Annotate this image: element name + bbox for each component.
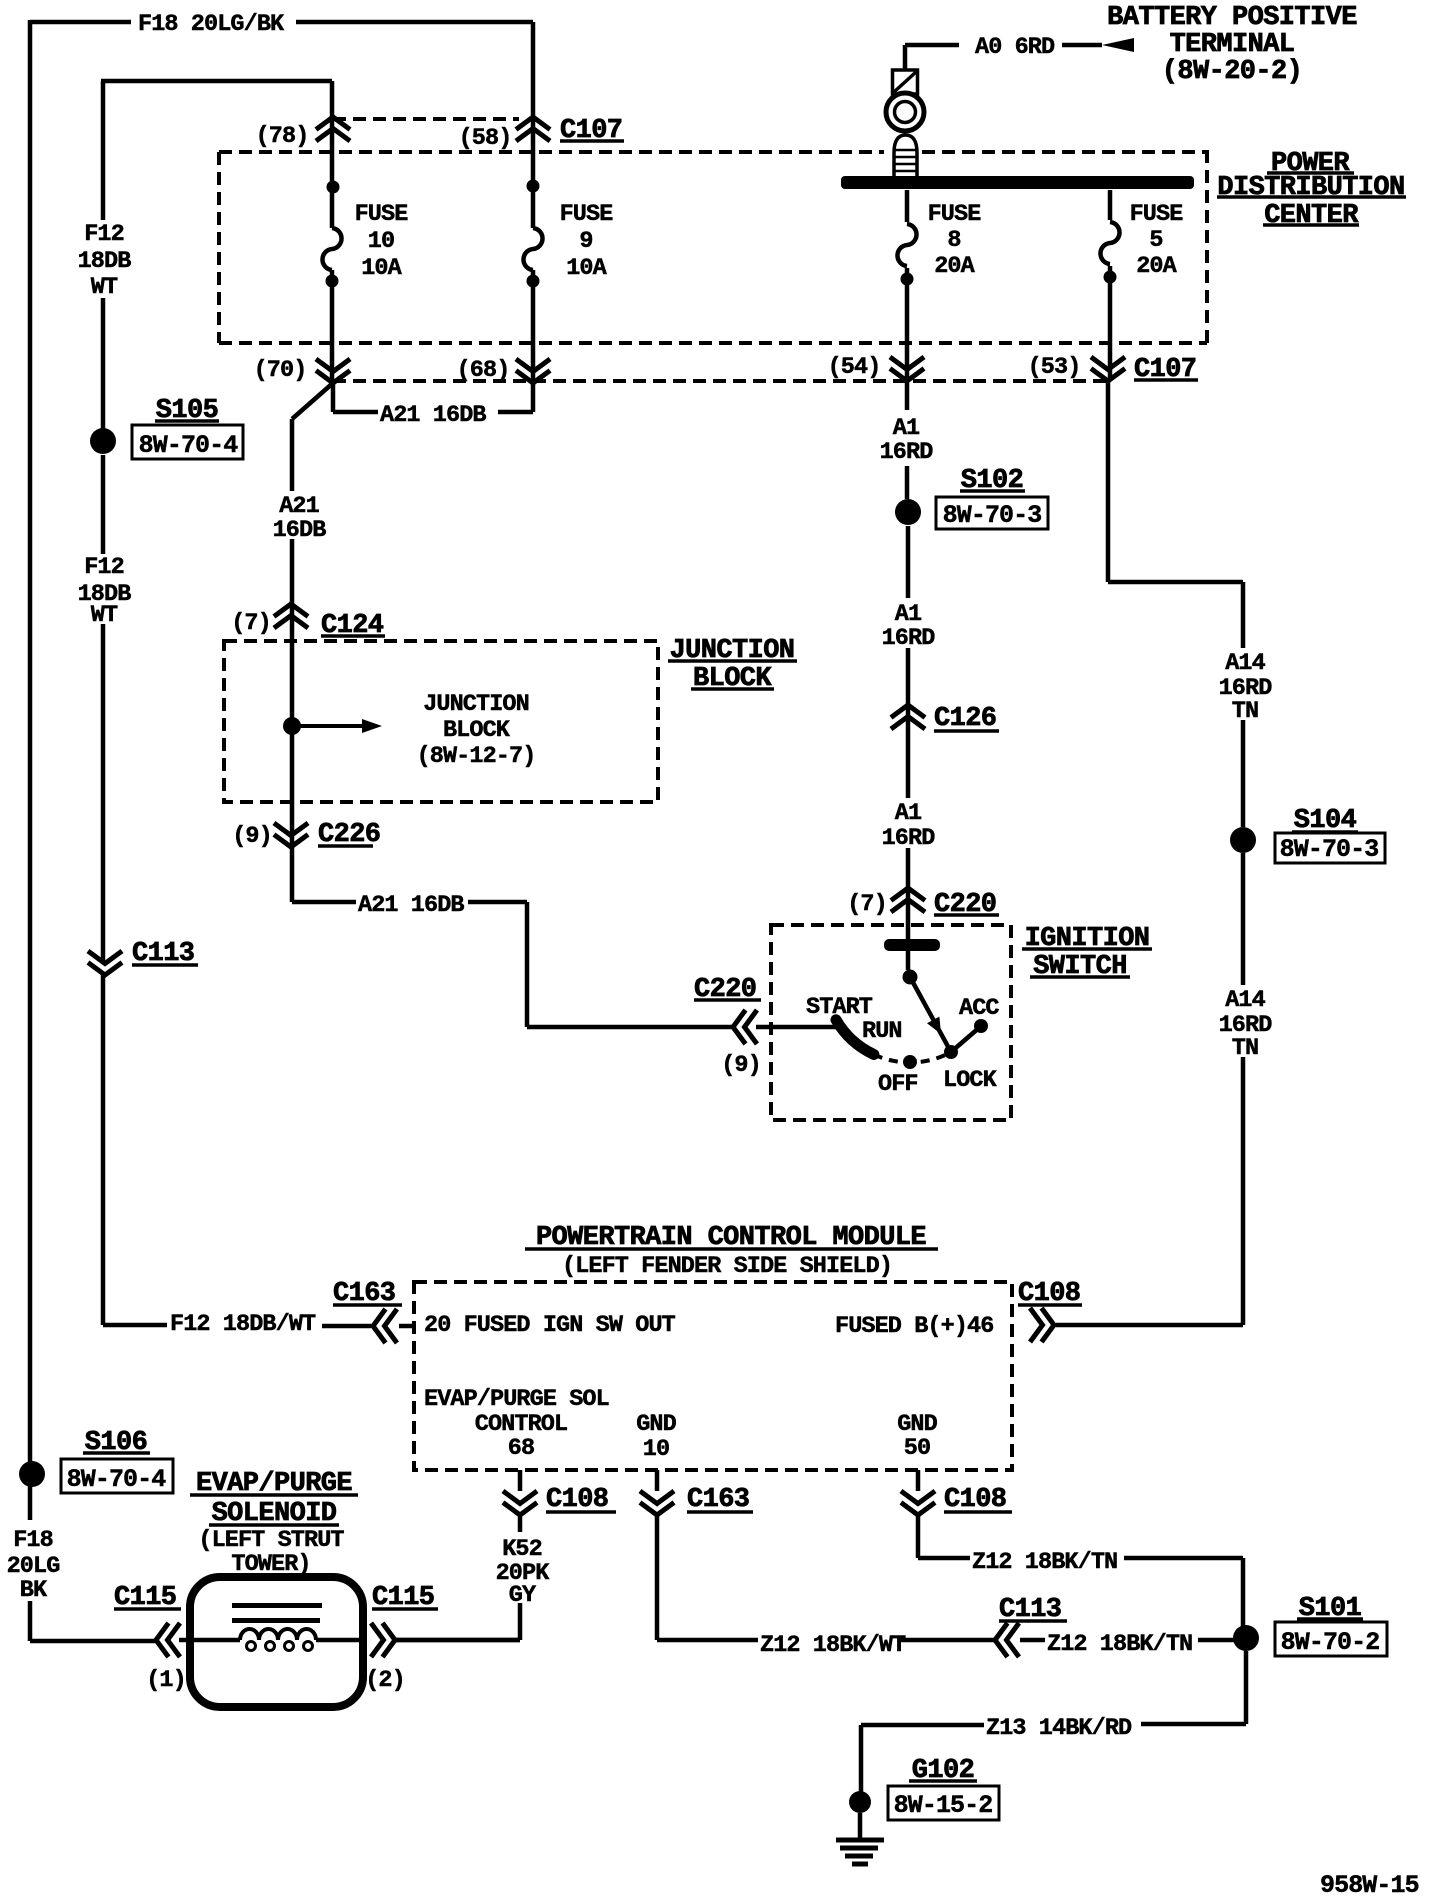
svg-text:(8W-20-2): (8W-20-2) [1162,57,1302,87]
svg-text:(9): (9) [232,823,272,850]
svg-text:8W-70-4: 8W-70-4 [139,431,239,460]
svg-text:Z12 18BK/TN: Z12 18BK/TN [972,1549,1117,1576]
svg-text:958W-15: 958W-15 [1320,1871,1419,1896]
svg-text:(54): (54) [828,354,881,381]
svg-text:16DB: 16DB [273,517,327,544]
svg-text:DISTRIBUTION: DISTRIBUTION [1217,173,1404,203]
svg-text:GND: GND [897,1411,937,1438]
svg-text:POWERTRAIN CONTROL MODULE: POWERTRAIN CONTROL MODULE [536,1223,926,1253]
svg-text:(9): (9) [721,1052,761,1079]
svg-text:20A: 20A [1136,253,1177,280]
svg-text:A21: A21 [279,493,319,520]
svg-text:C108: C108 [546,1485,608,1515]
svg-text:EVAP/PURGE SOL: EVAP/PURGE SOL [424,1386,609,1413]
svg-text:C107: C107 [1134,355,1196,385]
svg-text:16RD: 16RD [882,825,936,852]
svg-text:(70): (70) [254,357,307,384]
svg-text:S102: S102 [961,466,1023,496]
svg-text:GY: GY [509,1582,537,1609]
svg-text:68: 68 [508,1435,534,1462]
svg-text:LOCK: LOCK [943,1067,998,1094]
svg-text:Z12 18BK/WT: Z12 18BK/WT [760,1632,906,1659]
svg-text:(LEFT FENDER SIDE SHIELD): (LEFT FENDER SIDE SHIELD) [562,1253,892,1280]
svg-text:WT: WT [91,274,118,301]
svg-text:START: START [806,994,873,1021]
svg-text:C163: C163 [687,1485,749,1515]
svg-text:TOWER): TOWER) [231,1551,310,1578]
svg-text:A1: A1 [895,800,922,827]
svg-text:20 FUSED IGN SW OUT: 20 FUSED IGN SW OUT [424,1312,676,1339]
svg-text:C113: C113 [999,1595,1061,1625]
svg-text:FUSE: FUSE [560,201,614,228]
svg-text:C126: C126 [934,704,996,734]
svg-text:TERMINAL: TERMINAL [1170,30,1295,60]
svg-text:10: 10 [643,1436,669,1463]
svg-text:F12: F12 [84,554,124,581]
svg-text:16RD: 16RD [882,625,936,652]
svg-text:FUSE: FUSE [1130,201,1184,228]
svg-text:(LEFT STRUT: (LEFT STRUT [198,1527,344,1554]
svg-text:K52: K52 [502,1536,542,1563]
svg-text:8W-70-3: 8W-70-3 [943,501,1042,530]
svg-text:(8W-12-7): (8W-12-7) [417,743,536,770]
svg-text:JUNCTION: JUNCTION [423,691,529,718]
svg-text:(68): (68) [457,357,510,384]
svg-text:20LG: 20LG [7,1553,60,1580]
svg-text:C124: C124 [321,611,384,641]
svg-text:F18: F18 [13,1527,53,1554]
svg-text:C115: C115 [372,1583,434,1613]
svg-text:CENTER: CENTER [1264,201,1359,231]
svg-text:TN: TN [1232,1035,1258,1062]
svg-text:F18 20LG/BK: F18 20LG/BK [138,11,285,38]
svg-text:GND: GND [636,1411,676,1438]
svg-text:CONTROL: CONTROL [475,1411,567,1438]
svg-text:9: 9 [579,228,592,255]
svg-text:C115: C115 [114,1583,176,1613]
svg-text:A14: A14 [1225,650,1265,677]
svg-text:C107: C107 [560,116,622,146]
svg-text:5: 5 [1149,227,1162,254]
svg-text:(7): (7) [847,891,887,918]
svg-text:SOLENOID: SOLENOID [212,1499,337,1529]
svg-text:F12 18DB/WT: F12 18DB/WT [170,1311,316,1338]
svg-text:C108: C108 [944,1485,1006,1515]
svg-text:FUSED B(+)46: FUSED B(+)46 [835,1313,993,1340]
svg-text:10A: 10A [566,255,607,282]
svg-text:(58): (58) [459,125,512,152]
svg-text:S105: S105 [156,396,218,426]
svg-text:20A: 20A [934,253,975,280]
svg-text:8: 8 [947,227,960,254]
svg-text:FUSE: FUSE [355,201,409,228]
svg-text:10: 10 [368,228,394,255]
svg-text:F12: F12 [84,221,124,248]
svg-text:C108: C108 [1018,1279,1080,1309]
svg-text:8W-70-3: 8W-70-3 [1280,835,1379,864]
svg-text:BATTERY POSITIVE: BATTERY POSITIVE [1107,3,1357,33]
svg-text:16RD: 16RD [880,439,934,466]
svg-text:C226: C226 [318,820,380,850]
svg-text:JUNCTION: JUNCTION [670,636,795,666]
svg-text:(2): (2) [365,1667,405,1694]
svg-text:S106: S106 [85,1428,147,1458]
svg-text:S101: S101 [1299,1594,1362,1624]
svg-text:WT: WT [91,602,118,629]
svg-text:EVAP/PURGE: EVAP/PURGE [196,1469,352,1499]
svg-text:BLOCK: BLOCK [443,717,511,744]
svg-text:(1): (1) [146,1667,186,1694]
svg-text:A0 6RD: A0 6RD [975,34,1055,61]
svg-text:A1: A1 [895,601,922,628]
svg-text:BLOCK: BLOCK [693,664,772,694]
svg-text:(53): (53) [1028,354,1081,381]
svg-text:(7): (7) [231,610,271,637]
svg-text:C220: C220 [934,890,996,920]
svg-text:18DB: 18DB [78,248,132,275]
svg-text:50: 50 [904,1435,930,1462]
svg-text:8W-15-2: 8W-15-2 [894,1791,993,1820]
svg-text:S104: S104 [1294,806,1357,836]
svg-text:SWITCH: SWITCH [1033,952,1127,982]
svg-text:ACC: ACC [959,995,999,1022]
svg-text:IGNITION: IGNITION [1025,924,1150,954]
svg-text:BK: BK [20,1577,48,1604]
svg-text:A21 16DB: A21 16DB [380,402,486,429]
svg-text:A14: A14 [1225,987,1265,1014]
svg-text:8W-70-2: 8W-70-2 [1281,1628,1380,1657]
svg-text:OFF: OFF [878,1071,918,1098]
svg-text:C113: C113 [132,939,194,969]
svg-text:(78): (78) [256,123,309,150]
svg-text:A21 16DB: A21 16DB [358,892,464,919]
svg-text:C220: C220 [694,975,756,1005]
svg-text:G102: G102 [912,1756,974,1786]
svg-text:Z12 18BK/TN: Z12 18BK/TN [1047,1631,1192,1658]
svg-text:Z13 14BK/RD: Z13 14BK/RD [986,1715,1132,1742]
svg-text:A1: A1 [893,415,920,442]
svg-text:10A: 10A [361,255,402,282]
svg-text:8W-70-4: 8W-70-4 [67,1465,167,1494]
svg-text:TN: TN [1232,698,1258,725]
svg-text:FUSE: FUSE [928,201,982,228]
svg-text:C163: C163 [333,1279,395,1309]
svg-text:RUN: RUN [862,1018,902,1045]
